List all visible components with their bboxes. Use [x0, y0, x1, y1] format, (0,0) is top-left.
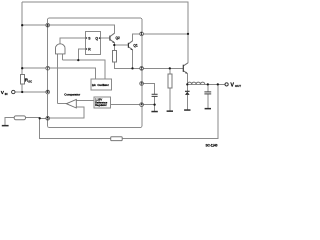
latch R input arrow: [86, 48, 88, 50]
oscillator box: [91, 79, 111, 90]
transistor Q3 base bar (external NPN): [182, 65, 184, 72]
wire output cap bottom stub to ground: [207, 94, 209, 108]
wire output rail switch node to Vout terminal: [187, 83, 225, 85]
wire pin8 internal to Q2 collector: [50, 25, 115, 33]
node Vin riser / pin8 wire: [21, 24, 23, 26]
transistor Q1 base bar: [127, 43, 129, 48]
wire feedback from Vout node down along bottom through R2 up to divider node: [40, 84, 218, 138]
pin 1 circle: [140, 32, 144, 36]
terminal VOUT circle: [225, 83, 228, 86]
svg-text:SC: SC: [28, 79, 32, 83]
pin 3 circle: [140, 82, 144, 86]
node output cap / rail: [207, 83, 209, 85]
wire divider node to pin5: [40, 117, 46, 119]
node base resistor / pin2 wire: [169, 67, 171, 69]
catch diode D1: [185, 91, 190, 95]
resistor Q3 base resistor body: [168, 74, 172, 88]
wire base resistor bottom stub to ground: [169, 88, 171, 110]
wire Q1 emitter diagonal: [129, 47, 133, 50]
wire Q1 emitter vertical to pin2 net: [132, 50, 134, 69]
resistor R2 body (feedback from Vout): [111, 137, 123, 141]
wire pin2 external to Q3 base: [143, 67, 183, 69]
wire pin7 internal Ipk to oscillator box: [50, 68, 96, 79]
svg-text:Q1: Q1: [133, 43, 137, 47]
svg-text:V: V: [230, 82, 234, 88]
transistor Q1 emitter arrow: [130, 48, 132, 50]
latch Q output dot: [99, 37, 101, 39]
node divider R1-R2 / pin5: [39, 117, 41, 119]
wire catch diode cathode stub: [186, 84, 188, 91]
resistor R1 body (divider to ground): [14, 116, 25, 120]
AND gate: [56, 44, 66, 54]
svg-text:1: 1: [141, 32, 143, 36]
wire catch diode anode stub to ground: [186, 95, 188, 109]
terminal VIN circle: [12, 90, 15, 93]
wire pin4 external to ground: [143, 104, 154, 106]
pin 5 circle: [46, 116, 50, 120]
wire Q2 emitter node to Q1 base: [114, 44, 128, 46]
pin 7 circle: [46, 66, 50, 70]
wire comparator inverting input down to pin5: [50, 107, 85, 118]
wire resistor bottom to pin2 net: [114, 62, 140, 68]
wire reference box to pin4 internal: [110, 104, 140, 106]
svg-text:IN: IN: [5, 92, 8, 96]
wire Q2 emitter vertical to node: [113, 43, 115, 46]
svg-text:Ipk: Ipk: [92, 83, 96, 87]
wire CT bottom to ground: [154, 97, 156, 112]
node switch node (emitter/diode/inductor): [186, 83, 188, 85]
svg-text:Comparator: Comparator: [64, 92, 81, 96]
wire Q3 emitter vertical to switch node: [186, 73, 188, 84]
wire Q2 collector diagonal: [110, 33, 114, 36]
wire pin7 external from Rsc top junction: [22, 67, 46, 69]
wire Vin terminal to pin6: [15, 91, 46, 93]
wire oscillator bus riser to latch R input: [78, 49, 85, 60]
ground symbol Q3 base resistor ground: [167, 110, 173, 112]
wire AND gate left input down to comparator output: [57, 54, 59, 104]
svg-text:OUT: OUT: [235, 84, 241, 88]
wire pin1 external to right rail: [143, 33, 188, 35]
svg-text:Oscillator: Oscillator: [97, 83, 108, 87]
wire Q3 collector diagonal: [183, 63, 188, 66]
wire latch Q output to Q2 base: [101, 37, 110, 39]
wire output cap top stub: [207, 84, 209, 91]
ground symbol output cap ground: [205, 108, 211, 110]
IC block boundary U1: [48, 18, 143, 128]
wire comparator output to AND riser: [58, 103, 67, 105]
svg-text:2: 2: [141, 67, 143, 71]
pin 4 circle: [140, 103, 144, 107]
node Q2 emitter / Q1 base: [113, 44, 115, 46]
transistor Q2 emitter arrow: [112, 41, 114, 43]
svg-text:Regulator: Regulator: [95, 103, 107, 107]
wire pin8 external from Vin riser: [22, 24, 46, 26]
wire Q3 emitter diagonal: [183, 71, 187, 74]
node Vin wire / riser: [21, 91, 23, 93]
node Q1 emitter / pin2 wire: [131, 67, 133, 69]
comparator triangle: [66, 99, 76, 108]
resistor Q2 emitter resistor body: [112, 50, 116, 62]
pin 8 circle: [46, 23, 50, 27]
latch S input arrow: [86, 37, 88, 39]
wire base resistor top stub: [169, 68, 171, 74]
node pin4 ground / CT ground: [153, 103, 155, 105]
wire top supply rail y=2 over to right rail x=188 down to Q3 collector: [22, 2, 188, 63]
wire Q2 emitter node to resistor stub: [113, 45, 115, 50]
inductor L humps: [187, 82, 205, 84]
output capacitor CO plates: [204, 92, 211, 94]
wire Q1 collector vertical to pin1: [133, 34, 140, 41]
svg-text:5: 5: [47, 116, 49, 120]
node feedback / rail: [217, 83, 219, 85]
node pin1 wire / right rail: [187, 33, 189, 35]
wire ground to R1: [5, 118, 14, 126]
pin 6 circle: [46, 90, 50, 94]
resistor RSC body: [20, 75, 24, 84]
svg-text:Q: Q: [95, 36, 98, 40]
pin 2 circle: [140, 67, 144, 71]
svg-text:8: 8: [47, 23, 49, 27]
wire Q1 collector diagonal: [129, 41, 133, 44]
wire comparator non-inverting input to reference box: [76, 99, 94, 101]
svg-text:SC-1140: SC-1140: [206, 144, 218, 148]
wire Vin riser x=22 from top rail down to Vin node: [21, 2, 23, 92]
wire Q2 emitter diagonal: [110, 40, 114, 43]
transistor Q2 base bar: [109, 36, 111, 41]
svg-text:Q2: Q2: [116, 36, 120, 40]
timing capacitor CT plates: [152, 94, 158, 96]
wire R1 to divider node: [26, 117, 40, 119]
node Vin riser / pin7 wire: [21, 67, 23, 69]
svg-text:4: 4: [141, 103, 143, 107]
ground symbol CT / pin4 ground: [151, 111, 157, 113]
reference regulator box: [94, 97, 111, 108]
node oscillator bus / R riser: [77, 59, 79, 61]
wire AND gate right input to oscillator bus: [61, 54, 63, 60]
svg-text:3: 3: [141, 82, 143, 86]
transistor Q3 emitter arrow: [185, 72, 187, 74]
ground symbol diode ground: [184, 109, 190, 111]
wire pin3 external to timing cap CT: [143, 84, 154, 95]
junction dots: [21, 24, 219, 119]
wire oscillator output bus to oscillator box: [62, 60, 105, 79]
svg-text:7: 7: [47, 66, 49, 70]
wire AND gate output to latch S input: [60, 38, 85, 44]
latch box S-R flip flop: [85, 32, 100, 55]
ground symbol left (R1 ground): [2, 125, 9, 127]
svg-text:6: 6: [47, 90, 49, 94]
